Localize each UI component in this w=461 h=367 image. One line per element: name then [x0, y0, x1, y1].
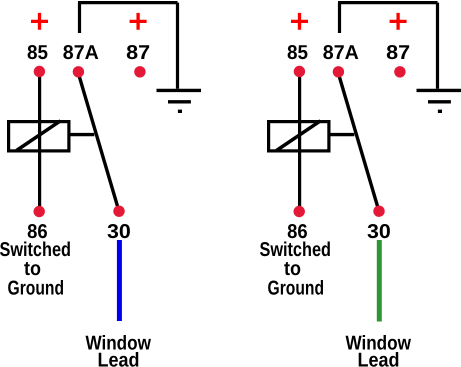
svg-text:87: 87 — [126, 42, 150, 64]
svg-text:30: 30 — [107, 221, 131, 243]
svg-text:Lead: Lead — [98, 349, 140, 367]
svg-text:87A: 87A — [63, 42, 99, 64]
svg-text:85: 85 — [27, 42, 48, 64]
svg-text:Ground: Ground — [8, 278, 65, 300]
